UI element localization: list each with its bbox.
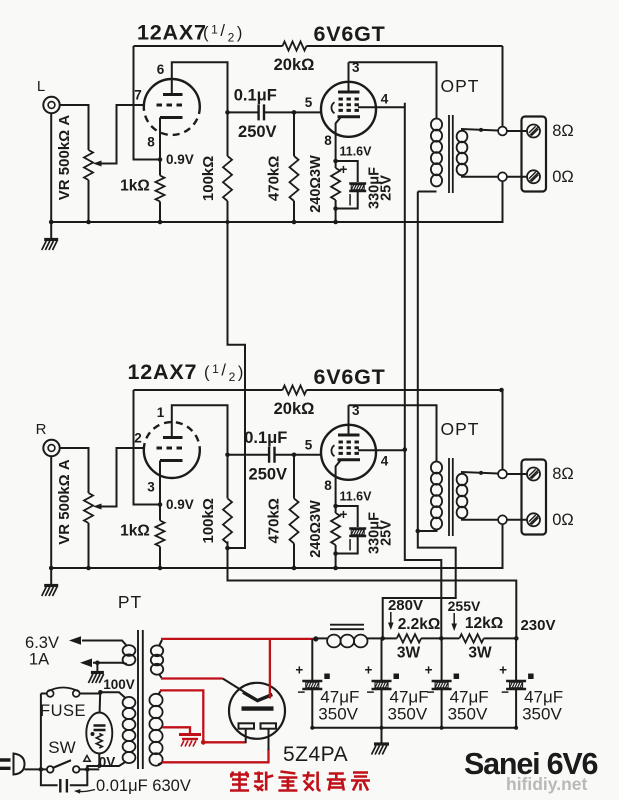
label 230V xyxy=(520,617,555,634)
svg-text:0Ω: 0Ω xyxy=(552,511,574,529)
speaker terminal block (lower) xyxy=(522,460,547,535)
pin 3 label (lower) xyxy=(352,403,360,418)
svg-text:−: − xyxy=(297,685,305,700)
svg-text:470kΩ: 470kΩ xyxy=(266,156,283,201)
wire 12AX7 cathode down (upper) xyxy=(159,118,161,160)
wire red drop to filament xyxy=(269,639,271,699)
wire 5V top lead (red) xyxy=(159,639,316,646)
12AX7 cathode (lower) xyxy=(160,459,183,462)
capacitor 0.01uF 630V xyxy=(41,769,87,792)
terminal screw 0ohm (lower) xyxy=(507,513,540,526)
svg-text:3W: 3W xyxy=(397,645,421,662)
pin 6 label (upper) xyxy=(157,62,165,77)
filter cap ground rail xyxy=(312,727,516,729)
wire jack sleeve to ground bus (upper) xyxy=(50,113,52,222)
pin 7 label (upper) xyxy=(134,88,142,103)
tube 6V6GT envelope (lower) xyxy=(321,425,376,480)
resistor 470k grid leak (upper) xyxy=(266,112,299,224)
svg-text:L: L xyxy=(37,78,45,95)
svg-text:12AX7: 12AX7 xyxy=(128,360,198,384)
pin 4 label (lower) xyxy=(381,453,389,468)
transformer OPT label (upper) xyxy=(441,76,480,96)
svg-text:350V: 350V xyxy=(318,705,358,724)
svg-text:255V: 255V xyxy=(448,598,481,614)
heater ground xyxy=(88,663,104,683)
node 8ohm terminal (lower) xyxy=(462,470,507,479)
svg-text:8: 8 xyxy=(324,133,332,148)
svg-text:8: 8 xyxy=(324,478,332,493)
input jack R (lower) xyxy=(36,421,60,456)
label 6V6GT upper xyxy=(313,22,385,46)
svg-text:6V6GT: 6V6GT xyxy=(313,365,385,389)
svg-text:3W: 3W xyxy=(468,645,492,662)
wire 6V6 screen (pin 4) (upper) xyxy=(358,106,405,108)
speaker terminal block (upper) xyxy=(522,117,547,192)
pin 3 label (upper) xyxy=(352,60,360,75)
svg-text:3: 3 xyxy=(147,480,155,495)
12AX7 grid (upper) xyxy=(157,104,186,107)
capacitor 47uF #4 xyxy=(499,638,563,729)
12AX7 cathode (upper) xyxy=(160,116,183,119)
svg-text:1kΩ: 1kΩ xyxy=(120,523,150,540)
PT 6.3V heater winding xyxy=(123,645,136,665)
node 280V xyxy=(380,636,385,641)
wire lower OPT primary bottom xyxy=(416,529,437,534)
svg-text:0.9V: 0.9V xyxy=(166,497,194,512)
wire primary bottom lead xyxy=(87,762,126,767)
fuse xyxy=(40,688,100,721)
wire 6V6 plate up (lower) xyxy=(348,405,350,435)
wire fuse branch down xyxy=(39,694,44,772)
svg-text:470kΩ: 470kΩ xyxy=(266,498,283,543)
svg-text:11.6V: 11.6V xyxy=(340,145,373,159)
svg-text:VR 500kΩ A: VR 500kΩ A xyxy=(56,115,73,201)
svg-text:350V: 350V xyxy=(448,705,488,724)
svg-text:6V6GT: 6V6GT xyxy=(313,22,385,46)
label 100V xyxy=(103,677,135,692)
label 255V xyxy=(448,598,481,614)
svg-text:0.01μF 630V: 0.01μF 630V xyxy=(96,777,191,795)
chassis ground (lower) xyxy=(42,568,59,596)
terminal screw 8ohm (lower) xyxy=(507,468,540,481)
svg-text:350V: 350V xyxy=(522,705,562,724)
node 8ohm terminal (upper) xyxy=(462,127,507,136)
svg-text:1kΩ: 1kΩ xyxy=(120,178,150,195)
resistor 100k plate load (upper) xyxy=(200,110,232,201)
OPT primary winding (upper) xyxy=(431,119,442,187)
wire 6V6 screen (pin 4) (lower) xyxy=(358,449,405,451)
ground bus junction dots (upper) xyxy=(49,220,91,225)
ground bus junction dots (lower) xyxy=(49,566,91,571)
svg-text:4: 4 xyxy=(381,91,389,106)
svg-text:7: 7 xyxy=(134,88,142,103)
node 255V xyxy=(439,636,444,641)
svg-text:hifidiy.net: hifidiy.net xyxy=(506,774,588,794)
label 12AX7 (1/2) lower xyxy=(128,360,246,384)
pot wiper arrow (upper) xyxy=(93,105,144,167)
wire 6.3V bottom lead xyxy=(80,659,127,668)
5Z4PA left leg xyxy=(245,729,247,744)
pot wiper arrow (lower) xyxy=(93,448,144,510)
svg-text:0Ω: 0Ω xyxy=(552,168,574,186)
svg-text:6.3V: 6.3V xyxy=(25,634,59,652)
svg-text:25V: 25V xyxy=(379,520,395,546)
svg-text:−: − xyxy=(501,685,509,700)
transformer OPT label (lower) xyxy=(441,419,480,439)
svg-text:+: + xyxy=(340,507,348,522)
6V6 cathode (lower) xyxy=(338,458,361,461)
wire 12AX7 plate to coupling node (lower) xyxy=(172,405,228,455)
wire 6.3V top lead xyxy=(69,636,127,646)
svg-text:6: 6 xyxy=(157,62,165,77)
resistor 1k cathode (upper) xyxy=(120,160,164,225)
label 280V xyxy=(388,597,423,614)
capacitor 330uF cathode bypass (upper) xyxy=(336,161,395,209)
wire upper OPT primary bottom xyxy=(418,191,437,193)
filter choke xyxy=(316,625,383,648)
pin 5 label (upper) xyxy=(305,95,313,110)
svg-text:OPT: OPT xyxy=(441,76,480,96)
label 8 ohm (lower) xyxy=(552,465,574,483)
resistor 240ohm cathode (lower) xyxy=(308,500,340,570)
svg-text:250V: 250V xyxy=(238,123,277,141)
12AX7 grid (lower) xyxy=(157,447,186,450)
svg-text:8: 8 xyxy=(147,135,155,150)
resistor 240ohm cathode (upper) xyxy=(308,155,340,224)
OPT core (upper) xyxy=(449,115,453,193)
pilot lamp xyxy=(86,713,112,754)
svg-text:2.2kΩ: 2.2kΩ xyxy=(398,616,441,633)
wire jack sleeve to ground bus (lower) xyxy=(50,456,52,568)
svg-text:0.9V: 0.9V xyxy=(166,152,194,167)
svg-text:240Ω3W: 240Ω3W xyxy=(308,155,324,213)
svg-text:|: | xyxy=(348,192,351,206)
svg-text:+: + xyxy=(340,162,348,177)
pin 2 label (lower) xyxy=(134,431,142,446)
wire plate line to OPT primary (lower) xyxy=(349,405,437,461)
junction blob on upper bus xyxy=(226,220,230,224)
svg-text:8Ω: 8Ω xyxy=(552,465,574,483)
wire 12AX7 plate to coupling node (upper) xyxy=(172,62,228,112)
wire 5V bottom lead (red) xyxy=(159,674,244,692)
svg-text:230V: 230V xyxy=(520,617,555,634)
node rectifier output xyxy=(313,636,318,641)
resistor 12k dropper xyxy=(441,634,516,642)
mains plug xyxy=(0,754,47,775)
label 2.2k 3W xyxy=(388,612,440,662)
node 0.9V (lower) xyxy=(158,497,194,512)
pin 3 label (lower) xyxy=(147,480,155,495)
svg-text:VR 500kΩ A: VR 500kΩ A xyxy=(56,459,73,545)
PT primary winding xyxy=(123,697,136,763)
svg-text:20kΩ: 20kΩ xyxy=(274,400,315,418)
node SW right xyxy=(80,766,120,772)
wire 12AX7 cathode down (lower) xyxy=(159,461,161,505)
wire screen supply line (both channels to 255V) xyxy=(403,103,442,639)
svg-text:25V: 25V xyxy=(379,175,395,201)
wire 6V6 cathode down (lower) xyxy=(336,460,341,506)
svg-text:PT: PT xyxy=(118,592,142,612)
label 12AX7 (1/2) upper xyxy=(137,21,245,45)
svg-text:20kΩ: 20kΩ xyxy=(274,56,315,74)
svg-text:12AX7: 12AX7 xyxy=(137,21,207,45)
label 1A xyxy=(29,651,49,669)
wire HV center tap (red) xyxy=(163,727,190,733)
svg-text:−: − xyxy=(427,685,435,700)
terminal screw 8ohm (upper) xyxy=(507,125,540,138)
6V6 plate (lower) xyxy=(338,434,360,437)
5Z4PA base pins xyxy=(239,723,277,728)
label 12k 3W xyxy=(451,613,503,662)
svg-text:0.1μF: 0.1μF xyxy=(234,86,277,104)
label 0 ohm (upper) xyxy=(552,168,574,186)
svg-text:5Z4PA: 5Z4PA xyxy=(283,743,348,766)
PSU ground xyxy=(372,728,390,755)
svg-text:100V: 100V xyxy=(103,677,135,692)
tube 12AX7 envelope (upper) xyxy=(144,79,200,135)
6V6 grid1 arc (lower) xyxy=(331,445,334,456)
12AX7 plate (lower) xyxy=(163,436,183,439)
label 0 ohm (lower) xyxy=(552,511,574,529)
switch SW xyxy=(47,738,80,773)
12AX7 plate (upper) xyxy=(163,93,183,96)
resistor 1k cathode (lower) xyxy=(120,505,164,571)
node 11.6V (upper) xyxy=(333,145,372,164)
resistor 2.2k dropper xyxy=(383,634,442,642)
wire 6V6 cathode down (upper) xyxy=(336,117,341,161)
tube 12AX7 envelope (lower) xyxy=(144,422,200,478)
svg-text:250V: 250V xyxy=(249,465,288,483)
svg-text:−: − xyxy=(367,685,375,700)
potentiometer VR 500k A (upper) xyxy=(56,115,93,222)
terminal screw 0ohm (upper) xyxy=(507,170,540,183)
svg-text:240Ω3W: 240Ω3W xyxy=(308,500,324,558)
resistor 100k plate load (lower) xyxy=(200,453,232,544)
wire NFB to cathode (upper) xyxy=(134,46,161,160)
svg-text:11.6V: 11.6V xyxy=(340,490,373,504)
label PT xyxy=(118,592,142,612)
svg-text:100kΩ: 100kΩ xyxy=(200,156,217,201)
input jack L (upper) xyxy=(37,78,60,113)
svg-text:|: | xyxy=(348,537,351,551)
5Z4PA filament xyxy=(243,692,272,701)
PT core xyxy=(138,630,143,769)
wire lamp top xyxy=(99,692,102,712)
resistor 20k NFB (lower) xyxy=(134,386,503,419)
svg-text:280V: 280V xyxy=(388,597,423,614)
wire HV bottom lead (red) xyxy=(158,749,269,765)
svg-text:350V: 350V xyxy=(388,705,428,724)
svg-text:5: 5 xyxy=(305,95,313,110)
svg-text:+: + xyxy=(365,663,373,678)
svg-text:FUSE: FUSE xyxy=(40,702,86,720)
svg-text:12kΩ: 12kΩ xyxy=(465,615,503,632)
svg-text:1: 1 xyxy=(157,405,165,420)
watermark hifidiy.net xyxy=(506,774,588,794)
wire 0ohm to ground bus (lower) xyxy=(51,524,502,568)
wire OPT B+ line (both channels to 280V) xyxy=(383,192,456,639)
6V6 grid1 arc (upper) xyxy=(331,102,334,113)
PT HV secondary winding xyxy=(149,694,162,766)
pin 8 label (upper) xyxy=(147,135,155,150)
node 11.6V (lower) xyxy=(333,490,372,509)
pin 1 label (lower) xyxy=(157,405,165,420)
potentiometer VR 500k A (lower) xyxy=(56,459,93,568)
capacitor 330uF cathode bypass (lower) xyxy=(336,506,395,554)
wire 0ohm to ground bus (upper) xyxy=(51,181,502,222)
capacitor 0.1uF coupling (lower) xyxy=(228,429,295,484)
wire jack to volume pot (lower) xyxy=(60,448,89,493)
pin 8 label (upper) xyxy=(324,133,332,148)
label 5Z4PA xyxy=(283,743,348,766)
capacitor 0.1uF coupling (upper) xyxy=(228,86,295,140)
resistor 470k grid leak (lower) xyxy=(266,455,299,571)
node 0ohm terminal (lower) xyxy=(462,515,507,524)
svg-text:1A: 1A xyxy=(29,651,49,669)
svg-text:5: 5 xyxy=(305,437,313,452)
6V6 cathode (upper) xyxy=(338,115,361,118)
wire NFB to 8ohm (upper) xyxy=(502,46,504,127)
HV center tap ground (red) xyxy=(179,735,201,747)
wire to 6V6 grid (upper) xyxy=(292,110,322,115)
wire HV top lead (red) xyxy=(158,690,246,744)
svg-text:100kΩ: 100kΩ xyxy=(200,498,217,543)
wire 6V6 plate up (upper) xyxy=(348,62,350,92)
pin 8 label (lower) xyxy=(324,478,332,493)
label modified-rectifier caption (red CJK) xyxy=(230,772,370,791)
6V6 grids (lower) xyxy=(339,442,360,453)
wire NFB to 8ohm (lower) xyxy=(499,388,504,470)
label 6V6GT lower xyxy=(313,365,385,389)
pin 5 label (lower) xyxy=(305,437,313,452)
node 230V xyxy=(514,636,519,641)
label 0V xyxy=(99,755,116,770)
node 0ohm terminal (upper) xyxy=(462,172,507,181)
triangle marker xyxy=(84,756,90,762)
svg-text:4: 4 xyxy=(381,453,389,468)
5Z4PA plate xyxy=(242,706,274,710)
capacitor 47uF #1 xyxy=(295,639,359,730)
OPT secondary winding (lower) xyxy=(457,474,468,519)
6V6 grids (upper) xyxy=(339,99,360,110)
svg-text:+: + xyxy=(425,663,433,678)
wire plate line to OPT primary (upper) xyxy=(349,62,437,118)
pin 4 label (upper) xyxy=(381,91,389,106)
svg-text:SW: SW xyxy=(48,738,75,757)
svg-text:R: R xyxy=(36,421,47,438)
wire jack to volume pot (upper) xyxy=(60,105,89,150)
svg-text:0V: 0V xyxy=(99,755,116,770)
svg-text:+: + xyxy=(499,663,507,678)
wire NFB to cathode (lower) xyxy=(134,390,161,505)
label Sanei 6V6 xyxy=(464,747,598,781)
wire primary top lead xyxy=(98,690,126,699)
wire B+ 230V rail to plate loads xyxy=(225,201,516,638)
5Z4PA right leg xyxy=(268,729,270,750)
resistor 20k NFB (upper) xyxy=(134,42,503,75)
rectifier 5Z4PA envelope xyxy=(229,683,285,739)
OPT primary winding (lower) xyxy=(431,462,442,530)
OPT core (lower) xyxy=(449,458,453,536)
label 0.01uF 630V xyxy=(74,777,191,795)
tube 6V6GT envelope (upper) xyxy=(321,82,376,137)
PT 5V rectifier heater winding xyxy=(151,645,163,674)
node 0.9V (upper) xyxy=(158,152,194,167)
OPT secondary winding (upper) xyxy=(457,131,468,176)
svg-text:8Ω: 8Ω xyxy=(552,122,574,140)
svg-text:0.1μF: 0.1μF xyxy=(244,429,287,447)
svg-text:2: 2 xyxy=(134,431,142,446)
svg-text:+: + xyxy=(295,663,303,678)
capacitor 47uF #3 xyxy=(425,638,489,729)
label 6.3V xyxy=(25,634,59,652)
capacitor 47uF #2 xyxy=(365,638,429,729)
label 8 ohm (upper) xyxy=(552,122,574,140)
chassis ground (upper) xyxy=(42,222,59,250)
wire to 6V6 grid (lower) xyxy=(292,453,322,458)
6V6 plate (upper) xyxy=(338,91,360,94)
svg-text:OPT: OPT xyxy=(441,419,480,439)
wire lamp bottom xyxy=(97,754,101,769)
